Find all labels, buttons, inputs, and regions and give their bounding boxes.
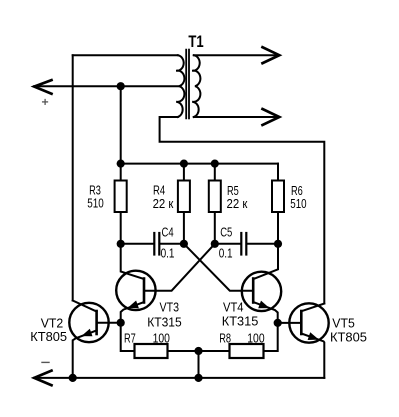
wire: midpoint down to minus bus [198, 351, 200, 378]
svg-text:КТ315: КТ315 [222, 314, 258, 329]
capacitor C4 [153, 233, 155, 255]
svg-text:22 к: 22 к [153, 196, 174, 211]
transistor VT5 [289, 303, 328, 342]
transformer T1 secondary winding [192, 55, 200, 117]
svg-text:T1: T1 [188, 33, 203, 51]
svg-text:22 к: 22 к [227, 196, 248, 211]
svg-text:C5: C5 [220, 225, 232, 240]
wire: cross coupling R4 node to VT4 base [184, 244, 253, 291]
svg-text:510: 510 [290, 196, 306, 211]
svg-text:КТ805: КТ805 [30, 329, 67, 344]
transistor VT4 [242, 272, 281, 311]
svg-text:0.1: 0.1 [219, 245, 233, 260]
node junction dot bus R4 [180, 160, 188, 168]
svg-text:100: 100 [247, 330, 264, 345]
wire: primary top lead from left rail to transformer [73, 54, 178, 56]
resistor R7 [135, 344, 168, 358]
node junction dot VT2 emitter on bus [69, 374, 77, 382]
wire: left tall vertical (VT2 collector to primary top) [72, 55, 74, 300]
wire: R8 right lead up to VT5 base node [264, 323, 278, 351]
svg-text:510: 510 [87, 196, 104, 211]
node -: minus label [42, 361, 49, 363]
wire: VT2 base node down to R7 [121, 323, 135, 351]
wire: secondary bottom output with arrow [194, 116, 276, 118]
svg-text:100: 100 [153, 330, 170, 345]
svg-text:VT4: VT4 [223, 299, 244, 314]
svg-text:R8: R8 [219, 330, 231, 345]
wire: cross coupling R5 node to VT3 base [144, 244, 215, 291]
wire: cap row left segment to C4 [121, 243, 154, 245]
resistor R6 [277, 164, 279, 181]
wire: C5 to R6 node [247, 243, 278, 245]
svg-text:0.1: 0.1 [161, 245, 175, 260]
wire: VT2 base lead [97, 322, 121, 324]
node junction dot VT2 base [117, 319, 125, 327]
node junction dot VT3 collector [117, 240, 125, 248]
transistor VT3 [116, 271, 155, 310]
node junction dot VT4 collector [274, 240, 282, 248]
wire: R7 to R8 link [168, 350, 230, 352]
wire: resistor top bus [121, 163, 278, 165]
wire: + rail arrowhead [34, 80, 51, 94]
svg-text:VT3: VT3 [160, 299, 180, 314]
node junction dot emitter resistors midpoint [194, 347, 202, 355]
node junction dot VT5 base [274, 319, 282, 327]
node junction dot midpoint on bus [194, 374, 202, 382]
wire: VT5 base lead [278, 322, 302, 324]
wire: VT4 collector lead [253, 244, 278, 279]
node +: plus label [43, 100, 48, 105]
svg-text:R7: R7 [124, 330, 136, 345]
svg-text:VT5: VT5 [332, 316, 355, 331]
wire: R5 node to C5 [215, 243, 241, 245]
node - rail: bottom bus [34, 377, 324, 379]
transistor VT2 [69, 303, 108, 342]
wire: - rail arrowhead [34, 371, 51, 386]
transformer T1 core [185, 50, 187, 119]
wire: secondary top output with arrow [194, 54, 276, 56]
resistor R4 [183, 164, 185, 181]
resistor R3 [120, 164, 122, 181]
node junction dot on + rail [117, 82, 125, 90]
wire: VT3 collector lead [121, 244, 144, 279]
resistor R8 [230, 344, 264, 358]
node junction dot bus left [117, 160, 125, 168]
svg-text:КТ315: КТ315 [147, 314, 182, 329]
svg-text:КТ805: КТ805 [330, 330, 367, 345]
transformer T1 primary winding [176, 55, 184, 117]
capacitor C5 [240, 233, 242, 255]
wire: primary bottom staircase to VT5 collector [160, 117, 325, 304]
wire: vertical from + rail to resistor bus [120, 86, 122, 163]
node + rail: horizontal supply wire [34, 85, 179, 87]
node junction dot VT4 base net [180, 240, 188, 248]
node junction dot bus R5 [211, 160, 219, 168]
resistor R5 [214, 164, 216, 181]
wire: C4 to R4 node [160, 243, 184, 245]
node junction dot VT3 base net [211, 240, 219, 248]
svg-text:C4: C4 [162, 225, 174, 240]
